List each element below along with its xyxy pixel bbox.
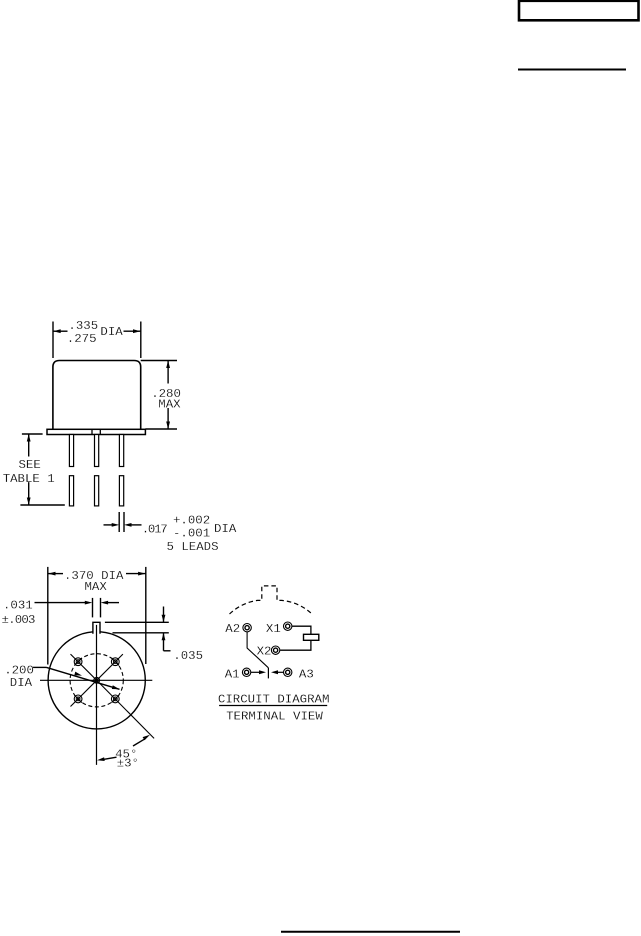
wire A3 to contact with arrow [271, 670, 283, 674]
wire X1 to heater resistor [292, 626, 311, 634]
lead 3 upper segment [119, 435, 123, 467]
svg-text:X2: X2 [257, 645, 272, 659]
dim .031 extension lines [92, 598, 94, 618]
pin top-left [74, 658, 82, 666]
terminal X2 [271, 646, 279, 654]
svg-text:DIA: DIA [100, 325, 123, 339]
svg-text:+.002: +.002 [173, 514, 210, 528]
flange notch (center lead slot) [91, 429, 93, 434]
dim .031 leader and arrows [35, 601, 120, 605]
bottom rule [281, 931, 460, 933]
caption underline [219, 705, 327, 707]
svg-text:±.003: ±.003 [2, 613, 36, 627]
dim .335/.275 dimension line with arrows [53, 329, 140, 333]
svg-text:.017: .017 [142, 523, 167, 537]
see table 1 dimension line with arrows [27, 434, 31, 505]
45 deg radius line to pin top-left [71, 654, 97, 680]
dim .200 leader with arrows [33, 667, 120, 689]
svg-text:MAX: MAX [158, 398, 181, 412]
svg-text:.275: .275 [67, 332, 97, 346]
lead 1 lower segment [69, 476, 73, 506]
dim .370 dimension line with arrows [48, 572, 146, 576]
svg-text:X1: X1 [266, 622, 281, 636]
dim 45 deg leader arrows [97, 735, 150, 761]
svg-text:TERMINAL VIEW: TERMINAL VIEW [226, 710, 323, 724]
header can circle (bottom view) [48, 632, 145, 729]
dim .035 ticks [105, 621, 169, 623]
dim .370 extension lines [47, 567, 49, 665]
svg-text:MAX: MAX [85, 580, 108, 594]
svg-text:SEE: SEE [19, 458, 41, 472]
dim .017 arrows [104, 523, 142, 527]
can body outline [53, 361, 141, 430]
svg-text:.031: .031 [3, 599, 33, 613]
horizontal centerline [40, 679, 152, 681]
wire A2 to contact arm [247, 632, 268, 668]
svg-text:±3°: ±3° [117, 756, 139, 770]
svg-text:TABLE 1: TABLE 1 [3, 472, 55, 486]
title block box [519, 1, 639, 21]
terminal A3 [284, 668, 292, 676]
svg-text:DIA: DIA [214, 522, 237, 536]
title block rule [518, 69, 626, 71]
dim .280 ticks [141, 360, 177, 362]
svg-text:.035: .035 [173, 649, 203, 663]
lead 2 lower segment [95, 476, 99, 506]
dim .017 extension lines [118, 512, 120, 532]
dim .035 arrows and leader [162, 607, 171, 651]
relay outline dashed arc with index tab [230, 586, 313, 615]
45 deg radius / reference line to pin bottom-right extended [97, 680, 154, 738]
can flange [47, 429, 145, 434]
pin circle (dashed) [70, 654, 123, 707]
vertical centerline [96, 625, 98, 765]
lead 2 upper segment [95, 435, 99, 467]
lead 3 lower segment [119, 476, 123, 506]
heater resistor [304, 634, 319, 640]
index tab (bottom view) [93, 622, 100, 634]
dim .280 arrows [166, 361, 170, 430]
45 deg radius line to pin top-right [97, 654, 123, 680]
contact bar [267, 668, 269, 679]
svg-text:-.001: -.001 [173, 527, 210, 541]
wire heater resistor to X2 [280, 640, 311, 650]
pin bottom-left [74, 695, 82, 703]
svg-text:A2: A2 [225, 622, 240, 636]
svg-text:A3: A3 [299, 668, 314, 682]
terminal A2 [243, 624, 251, 632]
lead 1 upper segment [69, 435, 73, 467]
center pin [94, 677, 100, 683]
svg-text:.335: .335 [68, 319, 98, 333]
wire A1 to contact with arrow [251, 670, 266, 674]
45 deg radius line to pin bottom-left [71, 680, 97, 706]
pin bottom-right [111, 695, 119, 703]
terminal X1 [284, 622, 292, 630]
terminal A1 [242, 668, 250, 676]
svg-text:5 LEADS: 5 LEADS [167, 540, 219, 554]
pin top-right [111, 658, 119, 666]
svg-text:A1: A1 [225, 668, 240, 682]
dim .335/.275 extension lines [52, 322, 54, 359]
see table 1 ticks [22, 433, 43, 435]
svg-text:CIRCUIT DIAGRAM: CIRCUIT DIAGRAM [218, 692, 330, 706]
svg-text:DIA: DIA [10, 676, 33, 690]
